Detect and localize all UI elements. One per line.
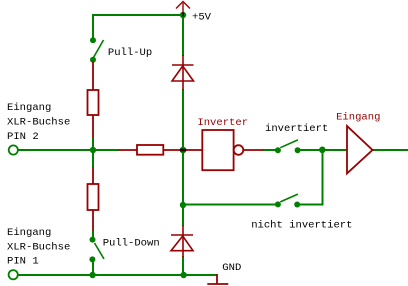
wire lower branch junction to switch S2 <box>183 204 278 206</box>
svg-text:PIN 2: PIN 2 <box>7 131 39 143</box>
wire switch S2 to corner <box>298 204 323 206</box>
wire main line junction down to resistor R2 <box>92 150 94 168</box>
node dark crossing band at main junction <box>180 149 186 152</box>
wire top rail vertical to pull-up switch <box>92 14 94 40</box>
node junction buffer input <box>319 147 326 154</box>
svg-text:XLR-Buchse: XLR-Buchse <box>7 116 70 128</box>
svg-text:Pull-Down: Pull-Down <box>103 237 160 249</box>
switch S2 nicht invertiert path <box>275 194 300 207</box>
wire corner up to buffer input node <box>322 150 324 206</box>
wire inverter output to switch S1 <box>263 149 278 151</box>
svg-text:GND: GND <box>222 262 241 274</box>
node junction bottom rail pull-down <box>89 272 95 278</box>
node junction +5V rail <box>180 12 186 18</box>
resistor R3 series <box>119 145 203 155</box>
node junction main line and clamp rail <box>180 147 187 154</box>
wire resistor R2 to pull-down switch <box>92 230 94 240</box>
svg-text:Eingang: Eingang <box>7 102 51 114</box>
wire +5V rail to diode D1 <box>182 15 184 56</box>
svg-text:invertiert: invertiert <box>265 123 328 135</box>
label Eingang XLR-Buchse PIN 2 <box>7 102 70 143</box>
resistor R2 pull-down <box>88 168 99 231</box>
node junction R1 chain and main line <box>90 147 96 153</box>
terminal XLR pin 2 <box>9 145 18 154</box>
wire diode D2 to bottom rail <box>182 256 184 275</box>
wire switch S1 to buffer input <box>298 149 348 151</box>
svg-text:Eingang: Eingang <box>336 112 380 124</box>
wire diode D1 to main line <box>182 89 184 150</box>
ground GND symbol <box>207 274 228 284</box>
op-amp U1 inverter box <box>202 130 263 170</box>
wire buffer output <box>373 149 408 151</box>
op-amp U2 buffer triangle Eingang <box>347 126 373 173</box>
power +5V symbol <box>176 2 190 17</box>
terminal XLR pin 1 <box>9 270 18 279</box>
svg-text:Eingang: Eingang <box>7 227 51 239</box>
wire main line to lower branch junction <box>182 150 184 205</box>
svg-text:+5V: +5V <box>192 12 212 24</box>
switch Pull-Down <box>89 237 104 263</box>
label Eingang XLR-Buchse PIN 1 <box>7 227 70 268</box>
svg-text:XLR-Buchse: XLR-Buchse <box>7 241 70 253</box>
switch Pull-Up <box>90 37 104 63</box>
diode D2 clamp to GND <box>171 225 193 257</box>
wire bottom rail horizontal <box>18 274 217 276</box>
wire lower junction to diode D2 <box>182 205 184 226</box>
node junction bottom rail clamp <box>180 272 186 278</box>
wire XLR pin2 terminal to resistor R3 <box>18 149 119 151</box>
wire resistor R1 to main line junction <box>92 138 94 150</box>
svg-text:PIN 1: PIN 1 <box>7 256 39 268</box>
diode D1 clamp to +5V <box>172 55 194 90</box>
svg-text:Pull-Up: Pull-Up <box>108 47 152 59</box>
wire pull-down switch to bottom rail <box>92 259 94 275</box>
switch S1 invertiert path <box>275 140 301 153</box>
resistor R1 pull-up <box>88 62 99 139</box>
svg-text:Inverter: Inverter <box>197 117 248 129</box>
svg-text:nicht invertiert: nicht invertiert <box>251 219 352 231</box>
node junction lower branch <box>180 202 186 208</box>
wire top rail horizontal <box>93 14 183 16</box>
